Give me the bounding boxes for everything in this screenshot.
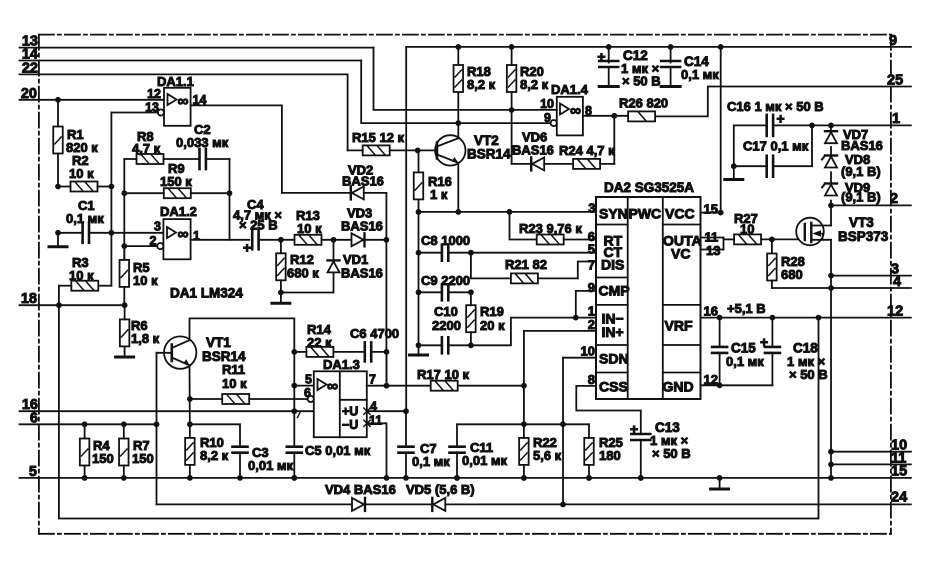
svg-text:+5,1 В: +5,1 В: [727, 301, 766, 316]
ground bottom middle: [719, 478, 721, 489]
svg-text:R17 10 к: R17 10 к: [417, 367, 470, 382]
wire DA1.2 pin2 input: [124, 245, 157, 247]
svg-text:C16 1 мк × 50 В: C16 1 мк × 50 В: [727, 99, 824, 114]
svg-text:DA1.3: DA1.3: [323, 357, 360, 372]
node R12 top: [278, 237, 284, 243]
svg-text:BAS16: BAS16: [841, 138, 883, 153]
resistor R19: [466, 305, 476, 332]
wire VCC pin15: [701, 212, 721, 214]
node emitter / C3 branch: [187, 421, 193, 427]
svg-text:150: 150: [132, 451, 154, 466]
svg-text:+: +: [760, 334, 768, 350]
pin 2 (right): [831, 204, 911, 206]
svg-text:VRF: VRF: [665, 318, 693, 334]
node C12 top: [606, 44, 612, 50]
wire R23 branch: [510, 212, 537, 240]
resistor R10: [185, 438, 195, 465]
svg-text:12: 12: [147, 87, 161, 101]
wire SYN row: [419, 211, 597, 213]
DA1.3 pin6 inverting circle: [308, 396, 314, 402]
svg-text:−U: −U: [342, 418, 358, 432]
node R22 top / IN+ line: [521, 421, 527, 427]
pin 6 (left): [20, 423, 157, 425]
svg-text:0,01 мк: 0,01 мк: [248, 458, 294, 473]
transistor VT1: [164, 336, 196, 368]
capacitor C10: [441, 337, 444, 353]
diode VD5: [433, 498, 445, 511]
svg-text:3: 3: [154, 220, 161, 234]
small slash mark: [298, 412, 301, 418]
ground under C14: [661, 85, 680, 88]
node VCC top: [718, 44, 724, 50]
node R7 top: [121, 421, 127, 427]
capacitor C1: [81, 223, 84, 243]
node R20 top: [509, 44, 515, 50]
capacitor C18: [771, 318, 773, 347]
wire OUTA pin11 / VC pin13 to R27: [701, 237, 724, 239]
node R9 left: [121, 190, 127, 196]
wire C16 left / C17 to ground: [733, 125, 735, 166]
node source/pin4: [828, 285, 834, 291]
svg-text:8,2 к: 8,2 к: [200, 448, 229, 463]
node R25 bottom: [586, 475, 592, 481]
node rail/C13b: [638, 475, 644, 481]
svg-text:10: 10: [581, 344, 595, 359]
node rail/R22b: [521, 475, 527, 481]
svg-text:10: 10: [540, 97, 554, 111]
node rail/C8: [416, 250, 422, 256]
wire SDN input: [563, 357, 596, 359]
svg-text:5: 5: [588, 242, 595, 257]
node C11 bottom: [454, 475, 460, 481]
wire pin13 to DA1.4 input 10: [374, 48, 557, 110]
capacitor C2: [198, 149, 201, 169]
capacitor C16: [734, 124, 767, 126]
capacitor C9: [441, 284, 444, 300]
svg-text:+: +: [630, 421, 638, 437]
node rail/gnd: [717, 475, 723, 481]
node R14/C6 branch: [291, 349, 297, 355]
svg-text:10 к: 10 к: [69, 268, 94, 283]
svg-text:1,8 к: 1,8 к: [131, 331, 160, 346]
svg-text:150: 150: [92, 451, 114, 466]
resistor R18: [454, 65, 464, 92]
node C17 left corner: [731, 163, 737, 169]
resistor R17: [431, 381, 458, 391]
svg-text:+U: +U: [342, 405, 358, 419]
capacitor C5: [287, 445, 302, 448]
resistor R15: [363, 145, 390, 155]
node R16 bottom / rail top: [416, 209, 422, 215]
ground under rail: [418, 345, 420, 355]
svg-text:× 50 В: × 50 В: [789, 367, 828, 382]
node DA1.2 pin2 / R5: [121, 243, 127, 249]
node R18 top: [455, 44, 461, 50]
svg-text:C10: C10: [434, 304, 458, 319]
svg-text:VC: VC: [671, 246, 690, 262]
capacitor C13: [576, 386, 641, 434]
node source/pin3: [828, 273, 834, 279]
wire feedback column VD2/VD3 to DA1.3 out: [385, 193, 387, 386]
resistor R23: [537, 235, 564, 245]
node R2 right: [109, 184, 115, 190]
node rail/C10: [416, 342, 422, 348]
node source/pin10 line: [828, 449, 834, 455]
resistor R13: [295, 235, 322, 245]
resistor R9: [164, 188, 191, 198]
svg-text:BSP373: BSP373: [838, 229, 889, 244]
node R10 bottom: [187, 475, 193, 481]
svg-text:× 50 В: × 50 В: [652, 446, 691, 461]
resistor R11: [222, 394, 249, 404]
ground under C12: [599, 85, 618, 88]
node C8 right / R21 branch: [468, 250, 474, 256]
wire C8/C9/C10 left rail: [418, 212, 420, 345]
wire DA1.1 output 14: [191, 105, 282, 192]
resistor R20: [507, 65, 516, 92]
wire pin14 to DA1.4 input 9: [361, 61, 551, 124]
node R1 top: [55, 97, 61, 103]
node R4 bottom: [82, 475, 88, 481]
svg-text:GND: GND: [663, 379, 694, 395]
svg-text:22: 22: [22, 60, 38, 76]
capacitor C4: [251, 230, 254, 249]
node C5 bottom: [291, 475, 297, 481]
svg-text:2: 2: [890, 191, 898, 207]
wire SDN vertical: [562, 358, 564, 505]
wire DA1.2 output 1: [191, 239, 250, 241]
wire DA1.1 inv input column: [110, 113, 112, 286]
svg-text:SDN: SDN: [599, 351, 629, 367]
svg-text:VD4 BAS16: VD4 BAS16: [325, 482, 396, 497]
DA1.2 pin2 inverting circle: [157, 243, 163, 249]
node R20 bottom / DA1.4 in10: [509, 107, 515, 113]
node R28 top: [769, 237, 775, 243]
ground under R6: [124, 352, 126, 357]
svg-text:+: +: [777, 111, 785, 127]
svg-text:∞: ∞: [178, 93, 189, 110]
node VD9 / VT3 drain / pin2: [828, 203, 834, 209]
node C7 top: [403, 408, 409, 414]
ground under C16/C17: [733, 166, 735, 179]
node CMP/IN-: [573, 315, 579, 321]
node +5.1 return: [816, 315, 822, 321]
svg-text:R15 12 к: R15 12 к: [352, 130, 405, 145]
svg-text:10 к: 10 к: [133, 273, 158, 288]
DA1.1 pin13 inverting circle: [158, 109, 164, 115]
svg-text:(9,1 В): (9,1 В): [841, 164, 881, 179]
node R11 left / emitter: [187, 396, 193, 402]
capacitor C14: [670, 47, 672, 63]
svg-text:8: 8: [588, 372, 595, 387]
wire IN+ vertical: [523, 331, 525, 424]
svg-text:DIS: DIS: [601, 257, 624, 273]
svg-text:10: 10: [740, 222, 754, 237]
svg-text:∞: ∞: [570, 103, 581, 120]
wire IN+ input: [524, 330, 596, 332]
svg-text:R11: R11: [222, 362, 245, 377]
wire +5.1V return bottom: [59, 305, 819, 518]
svg-text:CMP: CMP: [599, 283, 630, 299]
svg-text:9: 9: [889, 33, 897, 49]
svg-text:∞: ∞: [327, 378, 338, 395]
svg-text:DA2 SG3525A: DA2 SG3525A: [604, 180, 694, 195]
node SDN to pin24 line: [560, 502, 566, 508]
node rail/C9: [416, 289, 422, 295]
node VT2 emitter / SYN row: [455, 209, 461, 215]
node C10 right / R19 bottom / IN- branch: [468, 342, 474, 348]
node SYN/R23 branch: [507, 209, 513, 215]
svg-text:680 к: 680 к: [287, 266, 319, 281]
op-amp DA1.1: [164, 88, 191, 126]
svg-text:× 25 В: × 25 В: [239, 218, 278, 233]
wire R24 up to output: [613, 116, 615, 164]
wire CSS pin8 (to C13 path drawn above): [595, 385, 597, 387]
svg-text:12: 12: [887, 304, 903, 320]
pin 9 (right) supply line: [406, 46, 911, 48]
svg-text:20: 20: [21, 86, 37, 102]
wire VT3 source down: [830, 240, 832, 478]
resistor R12: [276, 253, 286, 280]
node C1 right / DA1.2 in3: [109, 230, 115, 236]
svg-text:DA1.2: DA1.2: [160, 204, 197, 219]
wire emitter to R11: [190, 398, 222, 400]
wire R8/R9 left column to DA1.2 in2: [123, 159, 125, 259]
svg-text:5: 5: [305, 373, 312, 387]
node rail/-U: [384, 475, 390, 481]
capacitor C8: [441, 245, 444, 261]
node C1 left / ground: [55, 230, 61, 236]
svg-text:5: 5: [29, 464, 37, 480]
diode VD1: [333, 240, 335, 260]
ground under C1: [57, 233, 59, 247]
svg-text:BSR14: BSR14: [467, 147, 511, 162]
svg-text:CSS: CSS: [599, 379, 628, 395]
svg-text:18: 18: [21, 291, 37, 307]
node rail/C5b: [291, 475, 297, 481]
node VD7 top: [828, 123, 834, 129]
pin 11 (right): [831, 463, 911, 465]
wire DA1.3 pin5 input: [294, 385, 314, 387]
svg-text:DA1.4: DA1.4: [551, 82, 589, 97]
resistor R7: [119, 439, 129, 466]
svg-text:C6 4700: C6 4700: [350, 326, 399, 341]
diode VD6: [512, 163, 532, 165]
wire VCC supply drop: [720, 47, 722, 213]
IC DA2 SG3525A: [596, 197, 701, 399]
svg-text:SYN: SYN: [599, 206, 628, 222]
svg-text:R24 4,7 к: R24 4,7 к: [559, 143, 615, 158]
svg-text:1 к: 1 к: [430, 187, 448, 202]
wire DA1.3 -U pin11: [367, 423, 387, 478]
svg-text:R21 82: R21 82: [505, 257, 547, 272]
svg-text:10 к: 10 к: [69, 166, 94, 181]
svg-text:22 к: 22 к: [307, 335, 332, 350]
svg-text:11: 11: [369, 414, 382, 428]
node R5 bottom / R6 top: [122, 302, 128, 308]
svg-text:24: 24: [891, 489, 907, 505]
pin 4 (right): [773, 287, 911, 289]
svg-text:R23 9,76 к: R23 9,76 к: [519, 221, 582, 236]
resistor R6: [120, 319, 130, 346]
zener VD8: [825, 157, 837, 168]
resistor R3: [71, 281, 98, 291]
resistor R5: [120, 260, 130, 287]
svg-text:C17 0,1 мк: C17 0,1 мк: [743, 139, 809, 154]
node pin18/R3/+5V return: [56, 302, 62, 308]
node C15 top: [717, 315, 723, 321]
wire VRF pin16: [700, 317, 702, 319]
wire DA1.1 pin13 input: [111, 112, 157, 114]
svg-text:BAS16: BAS16: [342, 174, 384, 189]
svg-text:VT1: VT1: [206, 335, 231, 350]
wire R21 to DIS: [578, 262, 596, 279]
svg-text:2200: 2200: [432, 318, 461, 333]
svg-text:C5 0,01 мк: C5 0,01 мк: [305, 443, 371, 458]
node C13 bottom: [638, 475, 644, 481]
pin 16 (left): [20, 410, 314, 412]
svg-text:7: 7: [369, 373, 376, 387]
svg-text:IN+: IN+: [602, 324, 624, 340]
svg-text:9: 9: [588, 280, 595, 295]
svg-text:VT3: VT3: [849, 215, 874, 230]
node R7 bottom: [121, 475, 127, 481]
svg-text:150 к: 150 к: [160, 174, 192, 189]
wire GND pin12: [701, 384, 773, 386]
node C3 bottom: [237, 475, 243, 481]
svg-text:0,1 мк: 0,1 мк: [726, 354, 764, 369]
pin 22 (left): [20, 73, 348, 75]
node R17 right / IN+: [521, 383, 527, 389]
svg-text:3: 3: [588, 201, 595, 216]
svg-text:R19: R19: [480, 304, 504, 319]
resistor R16: [414, 172, 424, 199]
node C6/output: [384, 349, 390, 355]
svg-text:∞: ∞: [178, 226, 189, 243]
svg-text:0,033 мк: 0,033 мк: [176, 135, 229, 150]
border frame (dash-dot): [39, 35, 891, 534]
resistor R27: [734, 234, 761, 244]
capacitor C17: [734, 165, 767, 167]
node C16/C17 right: [809, 123, 815, 129]
resistor R2: [71, 182, 98, 192]
wire DA1.3 output 7 / R17 row: [367, 385, 431, 387]
wire C11 top row: [457, 423, 589, 425]
resistor R22: [519, 438, 529, 465]
wire C2/R9 right column: [229, 159, 231, 240]
svg-text:BAS16: BAS16: [341, 266, 383, 281]
node R4 top: [82, 421, 88, 427]
resistor R1: [53, 127, 63, 154]
wire DA1.3 +U pin4: [367, 410, 406, 412]
op-amp DA1.3: [314, 371, 367, 437]
wire C17 right up to pin1 line: [811, 125, 813, 166]
svg-text:2: 2: [588, 317, 595, 332]
transistor VT2: [435, 135, 465, 165]
node VD1 top: [331, 237, 337, 243]
wire VD4/VD5 line to pin 24: [157, 503, 911, 505]
resistor R8: [137, 154, 164, 164]
node C7 bottom: [403, 475, 409, 481]
pin 25 (right): [655, 87, 911, 117]
node pin5/column: [291, 383, 297, 389]
wire R12/VD1 bottom: [281, 292, 334, 294]
node source/rail: [828, 475, 834, 481]
wire VT1 emitter down: [189, 365, 191, 439]
svg-text:20 к: 20 к: [480, 318, 505, 333]
capacitor C11: [456, 424, 458, 446]
wire R21 branch: [471, 253, 510, 279]
DA1.4 pin9 inverting circle: [551, 120, 557, 126]
wire VT2 emitter: [457, 163, 459, 212]
svg-text:BAS16: BAS16: [341, 219, 383, 234]
svg-text:× 50 В: × 50 В: [622, 74, 661, 89]
capacitor C6: [363, 342, 366, 361]
svg-text:10 к: 10 к: [297, 221, 322, 236]
svg-text:1: 1: [892, 111, 900, 127]
node R16 top: [415, 148, 421, 154]
node rail/R25b: [586, 475, 592, 481]
wire C6 to output node: [386, 352, 388, 386]
resistor R21: [511, 273, 538, 283]
svg-text:DA1.1: DA1.1: [157, 74, 194, 89]
svg-text:DA1 LM324: DA1 LM324: [170, 286, 243, 301]
svg-text:PWC: PWC: [629, 206, 662, 222]
node C15 bottom: [717, 382, 723, 388]
capacitor C7: [405, 411, 407, 447]
svg-text:(9,1 В): (9,1 В): [841, 190, 881, 205]
node VT1 base / pin6 line: [154, 421, 160, 427]
pin 3 (right): [831, 275, 911, 277]
wire DA1.4 output 8: [583, 115, 628, 117]
wire supply vertical from pin9 line: [405, 47, 407, 411]
wire IN- branch: [471, 318, 596, 346]
wire CMP to IN-: [576, 291, 596, 318]
svg-text:2: 2: [150, 234, 157, 248]
resistor R25: [584, 438, 594, 465]
transistor VT3 MOSFET: [796, 218, 824, 246]
node pin16 line/column: [291, 408, 297, 414]
svg-text:15: 15: [891, 463, 907, 479]
node VD3 cathode / feedback column: [384, 237, 390, 243]
svg-text:10 к: 10 к: [222, 376, 247, 391]
svg-text:+: +: [597, 49, 605, 65]
node VT2 collector / R18 / pin9 input: [455, 120, 461, 126]
wire VT3 drain up: [830, 205, 832, 225]
op-amp DA1.4: [557, 97, 583, 136]
wire emitter branch to C3: [190, 423, 240, 425]
pin 5 (left) - ground rail to pin 15 (right): [20, 477, 911, 479]
svg-text:0,1 мк: 0,1 мк: [412, 454, 450, 469]
node source/pin11 line: [828, 462, 834, 468]
svg-text:0,1 мк: 0,1 мк: [681, 67, 719, 82]
pin 1 (right): [776, 124, 911, 126]
pin 18 (left): [20, 304, 125, 306]
node C9 right / R19 top: [468, 289, 474, 295]
node rail/C11b: [454, 475, 460, 481]
svg-text:0,1 мк: 0,1 мк: [66, 211, 104, 226]
svg-text:25: 25: [887, 73, 903, 89]
node DA1.3 output 7: [384, 383, 390, 389]
svg-text:R26 820: R26 820: [619, 96, 668, 111]
wire VT1 base down to VD4 line: [156, 353, 158, 505]
wire R17 input line: [366, 385, 368, 387]
svg-text:6: 6: [30, 410, 38, 426]
svg-text:4: 4: [893, 274, 901, 290]
wire VT2 collector: [457, 123, 459, 138]
node SDN line: [560, 421, 566, 427]
node R12 bottom: [278, 290, 284, 296]
